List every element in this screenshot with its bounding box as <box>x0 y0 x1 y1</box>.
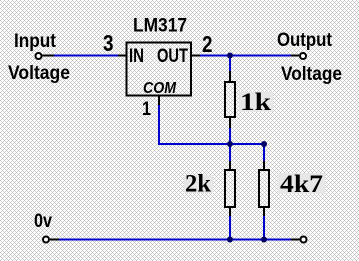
svg-text:LM317: LM317 <box>133 16 187 37</box>
node: junction middle rail at R2 <box>227 141 233 147</box>
wire: input to pin 3 (blue) <box>54 55 118 57</box>
svg-text:1k: 1k <box>240 89 271 116</box>
terminal: output voltage <box>300 53 306 59</box>
node: junction 0v rail at R2 <box>227 237 233 243</box>
svg-text:4k7: 4k7 <box>280 171 323 198</box>
svg-text:1: 1 <box>142 99 151 120</box>
svg-text:0v: 0v <box>34 211 52 232</box>
wire: R3 top pin stub (black) <box>263 161 265 170</box>
label backdrop for 4k7 <box>278 173 325 194</box>
wire: R1 bottom pin stub (black) <box>229 117 231 128</box>
wire: output terminal stub (black) <box>291 55 299 57</box>
svg-text:Output: Output <box>277 30 333 51</box>
node: junction 0v rail at R3 <box>261 237 267 243</box>
wire: junction to R1 top (blue) <box>229 56 231 72</box>
resistor R1 1k body <box>225 82 235 117</box>
wire: pin 3 stub of U1 (black) <box>118 55 126 57</box>
svg-text:2: 2 <box>202 31 213 57</box>
terminal: input voltage <box>36 53 42 59</box>
wire: input terminal stub (black) <box>43 55 55 57</box>
terminal: 0v right <box>301 237 307 243</box>
svg-text:IN: IN <box>129 46 144 67</box>
resistor R3 4k7 body <box>259 170 269 207</box>
op-amp U1 LM317 regulator body <box>127 43 192 96</box>
wire: bottom right terminal stub (black) <box>291 239 300 241</box>
wire: pin 2 stub of U1 (black) <box>192 55 200 57</box>
wire: R2 bottom pin stub (black) <box>229 207 231 216</box>
wire: middle rail to R2 top (blue) <box>229 144 231 161</box>
wire: 0v rail (blue) <box>59 239 291 241</box>
node: junction output/R1 <box>227 53 233 59</box>
svg-text:OUT: OUT <box>157 46 188 67</box>
svg-text:Voltage: Voltage <box>8 63 70 84</box>
wire: R2 top pin stub (black) <box>229 161 231 170</box>
wire: R1 bottom to middle rail (blue) <box>229 128 231 145</box>
wire: pin 1 stub of U1 (black) <box>158 97 160 106</box>
wire: R3 bottom pin stub (black) <box>263 207 265 216</box>
wire: pin 1 down and right to middle rail (blue) <box>159 105 264 144</box>
terminal: 0v left <box>43 237 49 243</box>
label backdrop for 1k <box>239 92 273 112</box>
node: junction middle rail at R3 <box>261 141 267 147</box>
svg-text:2k: 2k <box>185 171 211 198</box>
label backdrop for 2k <box>184 175 213 193</box>
svg-text:Input: Input <box>14 31 57 52</box>
resistor R2 2k body <box>225 170 235 207</box>
wire: 0v terminal stub (black) <box>50 239 59 241</box>
wire: pin 2 to output terminal (blue) <box>200 55 291 57</box>
wire: R1 top pin stub (black) <box>229 71 231 82</box>
svg-text:3: 3 <box>103 30 114 56</box>
svg-text:Voltage: Voltage <box>281 64 342 85</box>
wire: middle rail to R3 top (blue) <box>263 144 265 161</box>
svg-text:COM: COM <box>143 80 177 97</box>
wire: R3 bottom to 0v rail (blue) <box>263 216 265 240</box>
wire: R2 bottom to 0v rail (blue) <box>229 216 231 240</box>
